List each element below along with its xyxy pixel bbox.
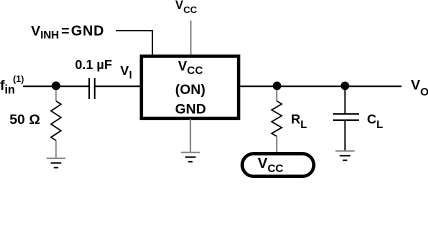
wire output	[240, 85, 402, 87]
resistor RL	[272, 90, 282, 152]
ground left	[47, 158, 66, 167]
supply bubble VCC oval	[242, 154, 314, 177]
junction input node dot	[52, 81, 61, 90]
svg-text:50 Ω: 50 Ω	[10, 111, 41, 127]
svg-text:=: =	[61, 23, 69, 39]
svg-text:GND: GND	[71, 24, 104, 40]
node fin label f_in (1)	[0, 74, 24, 97]
wire VINH to box top	[116, 31, 152, 55]
svg-text:(ON): (ON)	[175, 81, 205, 97]
svg-text:(1): (1)	[13, 74, 24, 84]
junction node CL dot	[341, 82, 350, 91]
ground center below box	[181, 152, 200, 161]
ground right below CL	[336, 151, 355, 160]
junction node RL dot	[273, 82, 282, 91]
wire box GND pin down	[189, 119, 191, 152]
resistor R1 50 ohm	[51, 90, 61, 158]
capacitor C1 0.1uF plates	[89, 78, 95, 99]
wire capacitor to box	[95, 85, 140, 87]
svg-text:GND: GND	[175, 100, 206, 116]
capacitor CL	[333, 90, 359, 151]
DUT analog-switch box	[141, 56, 238, 118]
wire input left segment	[23, 85, 89, 87]
svg-text:0.1 µF: 0.1 µF	[75, 57, 112, 72]
wire VCC supply to box	[190, 21, 192, 55]
